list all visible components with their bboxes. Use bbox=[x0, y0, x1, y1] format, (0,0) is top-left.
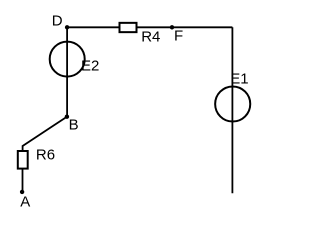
svg-text:A: A bbox=[20, 194, 30, 211]
resistor R6 bbox=[18, 151, 28, 169]
wire R4 to F bbox=[135, 26, 172, 28]
svg-text:F: F bbox=[174, 27, 183, 44]
svg-text:E1: E1 bbox=[230, 71, 248, 88]
wire B to R6 diagonal bbox=[23, 117, 67, 151]
resistor R4 bbox=[120, 23, 137, 32]
wire D to R4 bbox=[67, 26, 121, 28]
wire right branch corner down through E1 bbox=[231, 27, 233, 193]
wire R6 to A bbox=[22, 169, 24, 192]
wire D to B vertical through E2 bbox=[66, 27, 68, 116]
node F bbox=[170, 25, 174, 29]
voltage source E1 bbox=[215, 86, 250, 121]
svg-text:R6: R6 bbox=[36, 147, 55, 164]
svg-text:D: D bbox=[52, 13, 63, 30]
svg-text:R4: R4 bbox=[141, 29, 160, 46]
node B bbox=[65, 115, 69, 119]
svg-text:B: B bbox=[69, 116, 79, 133]
voltage source E2 bbox=[50, 42, 85, 77]
svg-text:E2: E2 bbox=[81, 58, 99, 75]
node D bbox=[65, 25, 69, 29]
node A bbox=[20, 190, 24, 194]
wire F to corner bbox=[172, 26, 232, 28]
